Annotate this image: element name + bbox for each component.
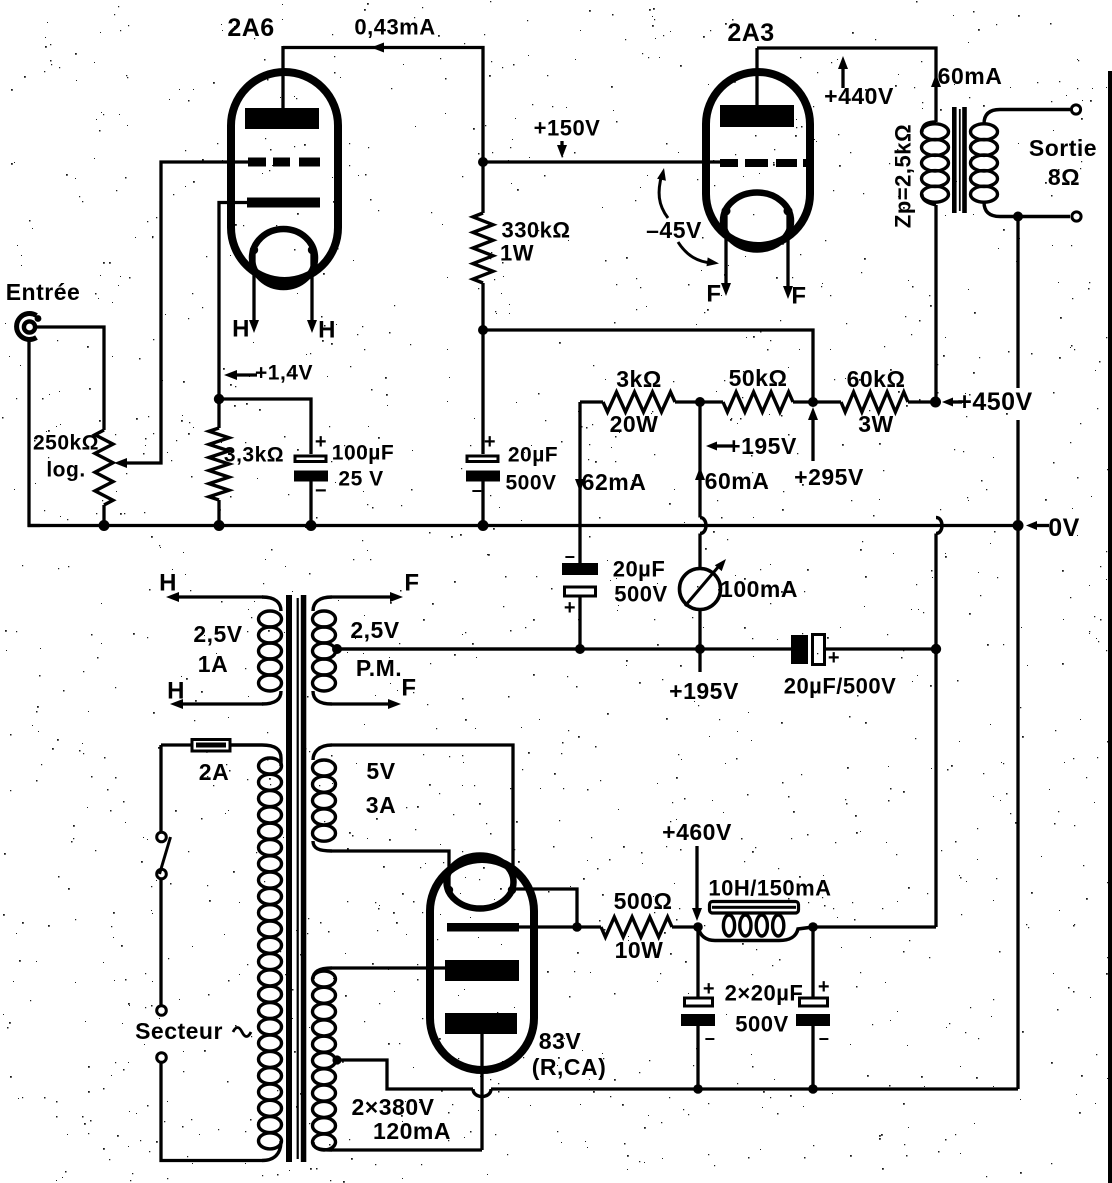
svg-text:−: − <box>704 1029 715 1049</box>
wire switch to terminal <box>159 879 162 1006</box>
tube 2A6 heater lead right with arrow <box>307 250 317 333</box>
svg-text:+: + <box>484 431 496 453</box>
node +195V row <box>695 397 705 407</box>
wire cathode takeoff <box>513 889 577 927</box>
wire mains bottom <box>161 1062 262 1161</box>
label 10H/150mA <box>708 876 831 901</box>
svg-text:60kΩ: 60kΩ <box>847 366 906 392</box>
label +150V with arrow <box>534 116 601 159</box>
output transformer secondary winding <box>971 124 998 202</box>
tube 83V filament <box>445 856 516 909</box>
svg-text:−: − <box>471 481 482 501</box>
label 10W <box>615 937 664 963</box>
annotation +295V <box>794 407 864 490</box>
label 330kOhm <box>501 218 570 243</box>
label 2,5V right <box>350 617 399 643</box>
tube 2A3 label <box>727 19 774 47</box>
capacitor 100uF 25V <box>294 431 328 502</box>
label 25 V <box>338 468 383 491</box>
svg-text:2A6: 2A6 <box>227 14 274 42</box>
svg-text:P.M.: P.M. <box>356 655 402 681</box>
label 250kOhm <box>33 432 99 455</box>
svg-text:Entrée: Entrée <box>6 279 81 305</box>
svg-text:2,5V: 2,5V <box>193 621 242 647</box>
winding 2,5V 1A <box>259 597 282 704</box>
label 83V <box>539 1028 582 1054</box>
label F bottom <box>401 675 416 702</box>
node speaker return <box>1013 212 1023 222</box>
winding 5V 3A <box>313 745 336 851</box>
svg-text:2×20µF: 2×20µF <box>725 981 804 1006</box>
bottom rail hop under plate2 wire <box>473 1089 491 1097</box>
mains sine symbol <box>233 1028 251 1037</box>
svg-text:3W: 3W <box>858 411 894 437</box>
svg-text:1A: 1A <box>198 651 228 677</box>
svg-text:5V: 5V <box>366 758 395 784</box>
label 20W <box>610 411 659 437</box>
svg-text:+450V: +450V <box>957 388 1033 416</box>
wire meter branch upper <box>698 402 701 518</box>
label 2x380V <box>352 1094 435 1120</box>
wire +295V feed <box>483 330 813 402</box>
wire cathode bar out <box>519 925 577 928</box>
label 3W <box>858 411 894 437</box>
wire speaker return down <box>1016 217 1019 526</box>
svg-text:0,43mA: 0,43mA <box>354 15 435 40</box>
mains terminal bottom <box>157 1053 167 1063</box>
svg-text:3,3kΩ: 3,3kΩ <box>224 444 284 467</box>
output terminal top <box>1071 105 1080 114</box>
label F left <box>706 281 721 308</box>
svg-text:Zp=2,5kΩ: Zp=2,5kΩ <box>891 124 916 228</box>
svg-text:100µF: 100µF <box>332 442 394 465</box>
svg-text:10W: 10W <box>615 937 664 963</box>
svg-text:2A3: 2A3 <box>727 19 774 47</box>
label 0,43mA <box>354 15 435 40</box>
wire cap to B+ line <box>825 647 936 650</box>
svg-text:H: H <box>159 570 177 597</box>
label 2,5V left <box>193 621 242 647</box>
node at 330k top <box>478 157 488 167</box>
node cathode <box>214 394 224 404</box>
svg-text:Secteur: Secteur <box>135 1018 223 1044</box>
svg-text:60mA: 60mA <box>938 63 1003 89</box>
wire cap 100uF to rail <box>306 481 317 531</box>
svg-text:330kΩ: 330kΩ <box>501 218 570 243</box>
svg-text:3A: 3A <box>366 792 396 818</box>
svg-text:500V: 500V <box>505 472 556 495</box>
wire choke to B+ riser <box>813 925 936 928</box>
svg-text:F: F <box>401 675 416 702</box>
wire 3,3k to rail <box>214 500 225 531</box>
label 8 Ohm <box>1048 164 1080 190</box>
wire 2A6 cathode down <box>219 203 248 429</box>
svg-text:+440V: +440V <box>824 83 894 109</box>
resistor 3,3k cathode <box>209 428 229 500</box>
annotation 0V <box>1026 514 1080 542</box>
svg-text:0V: 0V <box>1048 514 1080 542</box>
label F top <box>404 570 419 597</box>
label 500V bleeder <box>614 582 667 607</box>
tube 2A6 plate (anode) <box>245 108 319 129</box>
tube 2A6 grid (dashed) <box>248 158 320 167</box>
node rail ground <box>1013 520 1024 531</box>
label 100mA <box>720 576 798 602</box>
arrow 60mA on B+ wire <box>931 74 941 87</box>
tube 83V envelope <box>430 859 534 1070</box>
tube 2A3 plate lead <box>755 48 758 110</box>
output transformer core <box>952 107 967 213</box>
node tap PM <box>332 644 342 654</box>
winding 2x380V <box>313 968 336 1150</box>
arrow potentiometer wiper <box>114 458 127 468</box>
node choke in <box>693 922 703 932</box>
capacitor 2x20uF left <box>681 927 716 1089</box>
HV center tap <box>332 1055 341 1064</box>
node 330k bottom <box>478 325 488 335</box>
wire B+ down to choke <box>934 534 937 928</box>
svg-text:500Ω: 500Ω <box>614 888 673 914</box>
svg-text:log.: log. <box>46 459 85 482</box>
svg-text:2A: 2A <box>199 759 229 785</box>
label H right <box>318 317 336 344</box>
label log. <box>46 459 85 482</box>
label 20uF/500V <box>784 674 897 699</box>
output transformer primary winding <box>922 122 949 205</box>
wire HV bottom to plate2 <box>332 1148 482 1151</box>
svg-text:F: F <box>404 570 419 597</box>
svg-text:+195V: +195V <box>669 678 739 704</box>
svg-text:100mA: 100mA <box>720 576 798 602</box>
potentiometer 250k log <box>95 430 113 505</box>
hop meter branch over rail <box>700 518 706 534</box>
annotation +460V <box>662 819 732 921</box>
label (R,CA) <box>532 1054 607 1080</box>
svg-text:H: H <box>232 316 250 343</box>
svg-text:2,5V: 2,5V <box>350 617 399 643</box>
tube 83V cathode bar <box>447 923 519 932</box>
wire filament F top <box>332 592 403 602</box>
label 50kOhm <box>729 365 788 391</box>
tube 83V plate 2 <box>445 1013 517 1034</box>
annotation +195V lower <box>669 649 739 704</box>
capacitor 2x20uF right <box>796 927 830 1089</box>
wire heater H bottom <box>170 699 263 709</box>
node cathode junction <box>572 922 582 932</box>
tube 2A3 filament <box>722 193 793 250</box>
scan page border right edge <box>1108 71 1112 1183</box>
node +295V row <box>808 397 818 407</box>
svg-text:500V: 500V <box>614 582 667 607</box>
wire jack to 0V rail <box>29 339 40 526</box>
wire fuse to primary <box>230 745 281 758</box>
svg-text:+195V: +195V <box>727 433 797 459</box>
svg-text:1W: 1W <box>500 241 534 266</box>
svg-text:+1,4V: +1,4V <box>255 362 313 385</box>
label 60mA top <box>938 63 1003 89</box>
svg-text:(R,CA): (R,CA) <box>532 1054 607 1080</box>
capacitor 20uF/500V coupling <box>791 635 840 670</box>
wire cathode node to cap 100uF <box>219 399 311 454</box>
label 500V filter <box>735 1012 788 1037</box>
svg-text:Sortie: Sortie <box>1029 135 1097 161</box>
svg-text:−: − <box>315 480 327 502</box>
svg-text:+: + <box>564 597 576 619</box>
svg-text:2×380V: 2×380V <box>352 1094 435 1120</box>
wire 2A6 plate to node <box>283 48 483 163</box>
svg-text:+150V: +150V <box>534 116 601 141</box>
svg-text:8Ω: 8Ω <box>1048 164 1080 190</box>
bottom rail <box>491 1087 1018 1090</box>
switch mains <box>157 832 171 879</box>
wire fuse to switch <box>159 745 162 832</box>
annotation +1,4V <box>224 362 313 385</box>
wire secondary top to output terminal <box>984 110 1070 125</box>
arrow 0,43mA on plate wire <box>371 43 384 53</box>
input jack <box>17 314 42 340</box>
label 500 Ohm <box>614 888 673 914</box>
wire plate2 down <box>480 1034 483 1150</box>
svg-text:−: − <box>818 1029 829 1049</box>
svg-text:+: + <box>315 431 327 453</box>
svg-text:20µF: 20µF <box>508 444 558 467</box>
svg-text:H: H <box>167 678 185 705</box>
svg-text:60mA: 60mA <box>705 468 770 494</box>
center tap PM <box>332 644 580 653</box>
wire HV top to plate <box>332 966 447 969</box>
wire +195V line <box>337 647 791 650</box>
node B+ 649 <box>931 644 941 654</box>
svg-text:120mA: 120mA <box>373 1118 451 1144</box>
svg-text:H: H <box>318 317 336 344</box>
choke 10H coil <box>698 915 813 941</box>
svg-text:3kΩ: 3kΩ <box>616 366 662 392</box>
label 1A <box>198 651 228 677</box>
annotation -45V <box>646 168 719 266</box>
svg-text:20W: 20W <box>610 411 659 437</box>
svg-text:250kΩ: 250kΩ <box>33 432 99 455</box>
resistor 60k 3W <box>813 392 936 412</box>
wire HV tap to 0V <box>337 1060 473 1089</box>
annotation +440V <box>824 56 894 109</box>
wire 2A6 grid to potentiometer wiper <box>126 162 252 463</box>
winding 2,5V PM <box>313 597 336 704</box>
label 60kOhm <box>847 366 906 392</box>
resistor 3k 20W <box>580 392 700 412</box>
hop B+ over rail <box>936 518 942 534</box>
annotation +450V <box>942 388 1033 416</box>
label F right <box>791 283 806 310</box>
label Sortie <box>1029 135 1097 161</box>
label 3A <box>366 792 396 818</box>
svg-text:+295V: +295V <box>794 464 864 490</box>
tube 2A6 plate lead wire <box>281 46 284 112</box>
label 100uF <box>332 442 394 465</box>
label 2x20uF <box>725 981 804 1006</box>
tube 83V plate 1 <box>445 960 519 981</box>
wire 5V top to rectifier <box>332 745 513 889</box>
svg-text:83V: 83V <box>539 1028 582 1054</box>
capacitor 20uF/500V decoupling <box>466 330 500 531</box>
svg-text:62mA: 62mA <box>582 469 647 495</box>
label 5V <box>366 758 395 784</box>
wire 2A3 plate to transformer <box>757 48 936 122</box>
wire heater H top <box>166 592 263 602</box>
wire meter to 195 line <box>698 610 701 650</box>
wire meter branch lower <box>698 534 701 569</box>
wire jack to pot top <box>35 327 104 430</box>
label 3kOhm <box>616 366 662 392</box>
tube 2A6 diode-plate bar <box>247 198 320 208</box>
mains terminal top <box>157 1006 167 1016</box>
node meter <box>695 644 705 654</box>
label 1W <box>500 241 534 266</box>
label 3,3kOhm <box>224 444 284 467</box>
svg-text:25 V: 25 V <box>338 468 383 491</box>
wire 5V bottom to rectifier <box>332 851 449 889</box>
label H top <box>159 570 177 597</box>
svg-text:F: F <box>706 281 721 308</box>
svg-text:+460V: +460V <box>662 819 732 845</box>
tube 2A6 label <box>227 14 274 42</box>
label Zp=2,5kOhm <box>891 124 916 228</box>
node cap left bottom <box>693 1084 703 1094</box>
resistor 330k 1W <box>473 162 493 330</box>
tube 2A3 filament lead right <box>783 211 793 299</box>
meter 100mA <box>680 559 727 610</box>
label P.M. <box>356 655 402 681</box>
node +450V <box>930 397 941 408</box>
svg-text:10H/150mA: 10H/150mA <box>708 876 831 901</box>
0V rail <box>28 524 1018 527</box>
power transformer core <box>286 595 306 1162</box>
arrow 62mA <box>575 479 585 492</box>
label 20uF bleeder <box>613 557 666 582</box>
label 120mA <box>373 1118 451 1144</box>
label H bottom <box>167 678 185 705</box>
resistor 50k <box>700 392 813 412</box>
label 20uF <box>508 444 558 467</box>
tube 2A6 heater lead left with arrow <box>249 250 259 333</box>
svg-text:20µF: 20µF <box>613 557 666 582</box>
wire pot bottom to rail <box>99 505 110 531</box>
wire filament F bottom <box>332 699 401 709</box>
resistor 500 Ohm 10W <box>577 917 698 937</box>
wire +150V node to 2A3 grid <box>483 160 734 163</box>
node choke out <box>808 922 818 932</box>
label Entree <box>6 279 81 305</box>
label 60mA branch <box>705 468 770 494</box>
tube 2A3 envelope <box>706 72 810 246</box>
tube 2A3 plate (anode) <box>720 105 794 127</box>
capacitor 20uF 500V bleeder <box>562 526 598 650</box>
wire bleeder 3k to rail <box>578 402 581 526</box>
wire bottom rail riser <box>1016 526 1019 1090</box>
arrow 60mA branch <box>695 467 705 480</box>
label 500V <box>505 472 556 495</box>
tube 2A3 filament lead left <box>721 211 731 296</box>
tube 2A6 filament <box>250 229 316 287</box>
output terminal bottom <box>1072 212 1081 221</box>
wire B+ vertical <box>934 205 937 402</box>
node 20uF <box>575 644 585 654</box>
label 62mA <box>582 469 647 495</box>
annotation +195V row <box>706 433 797 459</box>
svg-text:F: F <box>791 283 806 310</box>
tube 2A3 grid (dashed) <box>720 159 810 167</box>
node cap right bottom <box>808 1084 818 1094</box>
label Secteur <box>135 1018 223 1044</box>
svg-text:500V: 500V <box>735 1012 788 1037</box>
svg-text:+: + <box>818 976 830 998</box>
svg-text:–45V: –45V <box>646 217 702 243</box>
label 2A <box>199 759 229 785</box>
wire secondary bottom <box>984 202 1070 217</box>
choke 10H/150mA core <box>710 902 799 914</box>
fuse 2A <box>161 740 230 752</box>
svg-text:50kΩ: 50kΩ <box>729 365 788 391</box>
label H left <box>232 316 250 343</box>
winding primary mains <box>259 758 282 1161</box>
tube 2A6 envelope <box>231 72 338 281</box>
svg-text:20µF/500V: 20µF/500V <box>784 674 897 699</box>
